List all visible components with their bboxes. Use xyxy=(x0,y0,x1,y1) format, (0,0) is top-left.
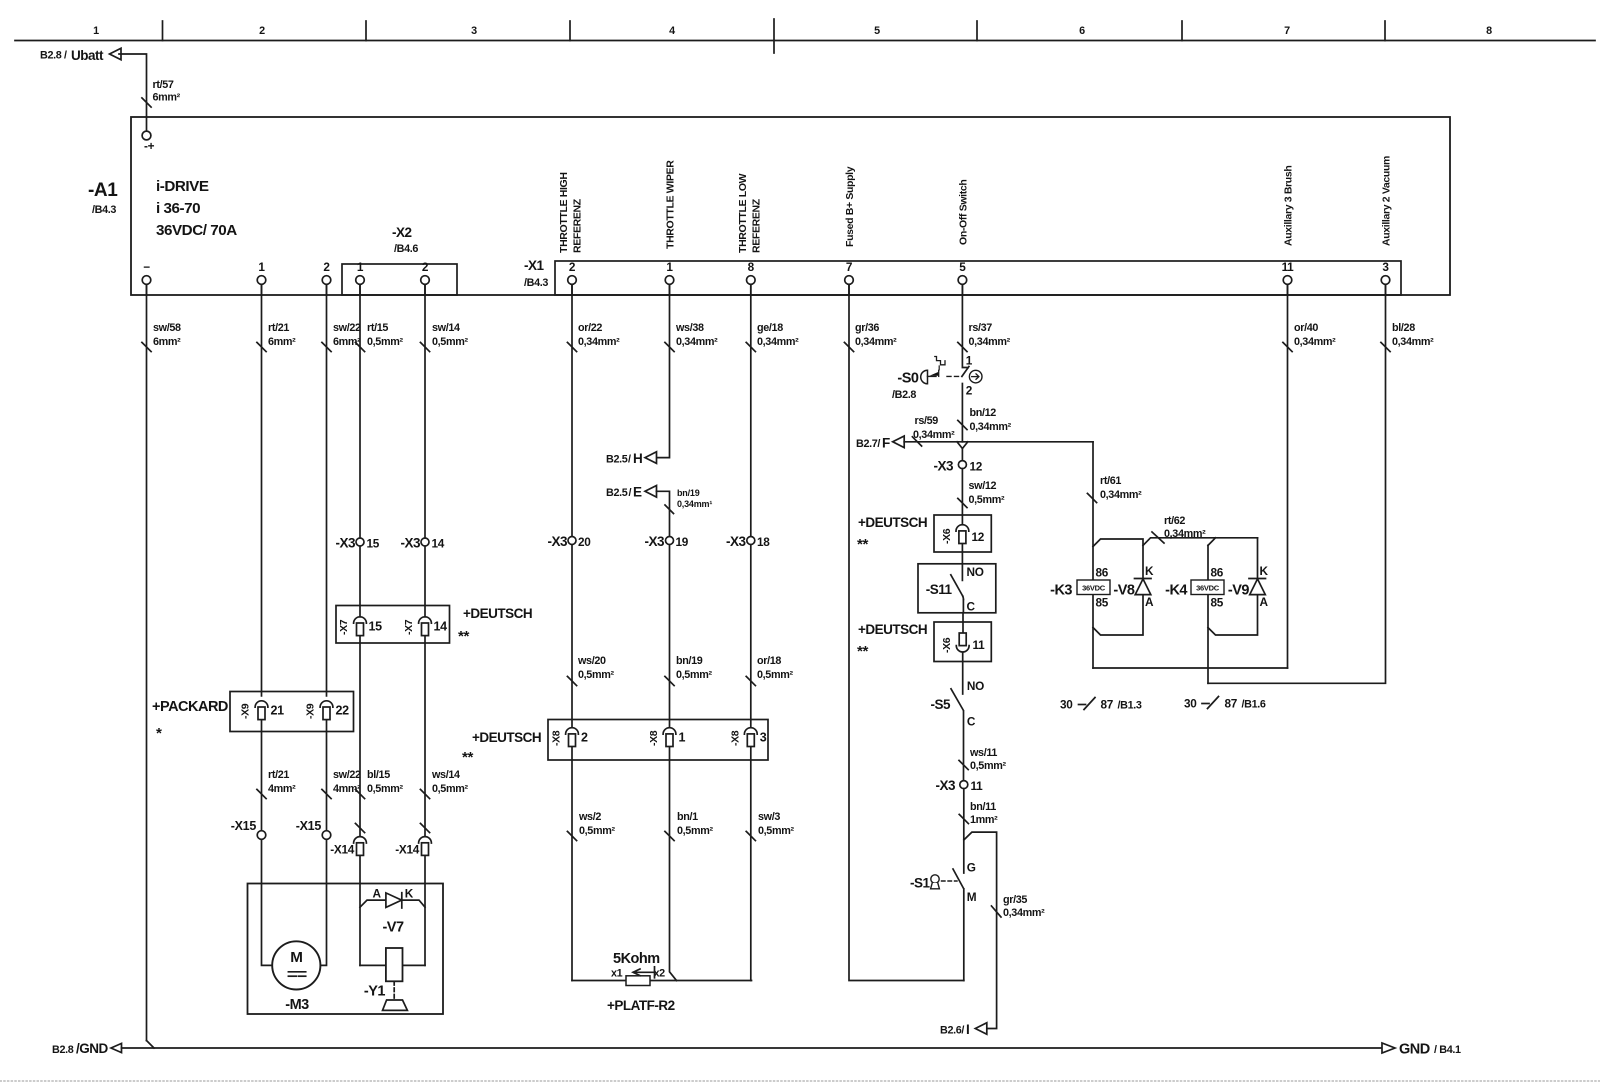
svg-text:0,5mm²: 0,5mm² xyxy=(578,669,614,681)
svg-text:G: G xyxy=(967,861,976,875)
svg-text:3: 3 xyxy=(1382,260,1389,274)
svg-text:0,34mm²: 0,34mm² xyxy=(578,336,620,348)
svg-text:-X9: -X9 xyxy=(240,703,252,719)
svg-text:0,5mm²: 0,5mm² xyxy=(758,825,794,837)
wire sw/12 (X3:12 to X6:12) xyxy=(958,469,1005,525)
diode V7 xyxy=(360,887,425,936)
X1 signal label THROTTLE WIPER xyxy=(665,160,677,249)
svg-text:-X14: -X14 xyxy=(330,843,354,857)
svg-text:6mm²: 6mm² xyxy=(333,336,361,348)
svg-text:rt/57: rt/57 xyxy=(153,79,174,91)
svg-text:-V9: -V9 xyxy=(1228,583,1250,599)
svg-text:4mm²: 4mm² xyxy=(268,783,296,795)
svg-text:11: 11 xyxy=(971,779,984,793)
svg-text:sw/14: sw/14 xyxy=(432,322,460,334)
svg-text:B2.8: B2.8 xyxy=(40,50,62,62)
svg-text:sw/58: sw/58 xyxy=(153,322,181,334)
connector X7 (+DEUTSCH **) xyxy=(336,606,532,646)
wire rt/57 from Ubatt to A1 + terminal xyxy=(119,54,181,131)
svg-text:-X3: -X3 xyxy=(400,536,421,551)
svg-text:i 36-70: i 36-70 xyxy=(156,200,200,217)
svg-text:-Y1: -Y1 xyxy=(364,984,386,1000)
wire rs/37 (X1 pin5 to S0) xyxy=(958,284,1011,367)
X8 pin 2 xyxy=(551,728,589,747)
node B2.5/H xyxy=(606,451,657,466)
svg-text:bl/28: bl/28 xyxy=(1392,322,1415,334)
controller A1 (i-DRIVE) xyxy=(88,117,1450,295)
K3 contact reference 30-87 /B1.3 xyxy=(1060,698,1142,712)
connector X2 xyxy=(342,225,457,295)
X1 pin 572 signal label xyxy=(558,172,584,253)
X1 signal label Fused B+ Supply xyxy=(844,166,856,247)
wire bn/12 (S0 to X3:12 junction) xyxy=(958,384,1012,442)
svg-text:12: 12 xyxy=(972,530,985,544)
svg-text:i-DRIVE: i-DRIVE xyxy=(156,178,209,195)
solenoid valve Y1 xyxy=(360,948,425,1010)
svg-text:30: 30 xyxy=(1184,697,1197,711)
svg-text:**: ** xyxy=(462,749,473,766)
wire sw/58 (A1 minus to GND bus) xyxy=(142,284,181,1040)
svg-text:+DEUTSCH: +DEUTSCH xyxy=(858,622,927,637)
svg-text:gr/36: gr/36 xyxy=(855,322,879,334)
svg-text:14: 14 xyxy=(434,620,448,634)
svg-text:A: A xyxy=(1145,595,1154,609)
svg-text:0,5mm²: 0,5mm² xyxy=(432,783,468,795)
svg-text:A: A xyxy=(373,887,382,901)
X1 pin 8 xyxy=(747,260,756,295)
svg-text:-X7: -X7 xyxy=(403,619,415,635)
wire gr/36 (X1 pin7 Fused B+ down to S1 loop) xyxy=(844,284,963,980)
svg-text:ge/18: ge/18 xyxy=(757,322,783,334)
svg-text:0,5mm²: 0,5mm² xyxy=(432,336,468,348)
svg-text:rt/62: rt/62 xyxy=(1164,515,1185,527)
svg-text:-V8: -V8 xyxy=(1113,583,1135,599)
svg-text:sw/22: sw/22 xyxy=(333,322,361,334)
svg-text:x1: x1 xyxy=(611,968,623,980)
svg-text:+PLATF-R2: +PLATF-R2 xyxy=(607,998,675,1013)
svg-text:2: 2 xyxy=(966,384,973,398)
svg-text:K: K xyxy=(405,887,414,901)
svg-text:0,34mm²: 0,34mm² xyxy=(1164,528,1206,540)
connector X8 (+DEUTSCH **) xyxy=(462,720,768,767)
X7 pin 14 xyxy=(403,617,447,636)
svg-text:K: K xyxy=(1145,564,1154,578)
svg-text:REFERENZ: REFERENZ xyxy=(572,198,584,253)
svg-text:85: 85 xyxy=(1096,596,1109,610)
svg-text:C: C xyxy=(967,600,976,614)
X8 pin 3 xyxy=(729,728,767,747)
wire S11 to X6:11 xyxy=(962,613,964,633)
svg-text:-X2: -X2 xyxy=(392,225,412,240)
svg-text:-X3: -X3 xyxy=(644,534,665,549)
svg-text:I: I xyxy=(966,1022,969,1037)
relay coil K4 loop xyxy=(1208,538,1258,684)
svg-text:REFERENZ: REFERENZ xyxy=(750,198,762,253)
svg-text:-S1: -S1 xyxy=(910,876,931,891)
potentiometer R2 (+PLATF-R2, 5Kohm) xyxy=(572,951,752,1013)
svg-text:+DEUTSCH: +DEUTSCH xyxy=(858,515,927,530)
connector X6 pin 12 (+DEUTSCH **) xyxy=(857,515,991,553)
X1 pin 5 xyxy=(958,260,967,295)
X1 signal label Auxillary 3 Brush xyxy=(1283,166,1295,246)
svg-text:0,5mm²: 0,5mm² xyxy=(677,825,713,837)
wire or/40 lower run (K3 rail to X1 pin11) xyxy=(1093,667,1288,669)
key switch S1 (G/M) xyxy=(910,861,977,981)
svg-text:bl/15: bl/15 xyxy=(367,769,390,781)
svg-text:-X3: -X3 xyxy=(335,536,356,551)
wire rt/21 (A1 pin1 to X9:21, X15, motor M3) xyxy=(257,284,296,965)
svg-text:NO: NO xyxy=(967,565,984,579)
svg-text:E: E xyxy=(633,485,642,500)
svg-text:rs/37: rs/37 xyxy=(969,322,993,334)
svg-text:-X6: -X6 xyxy=(941,528,953,544)
svg-text:0,34mm²: 0,34mm² xyxy=(1003,907,1045,919)
svg-text:0,34mm²: 0,34mm² xyxy=(969,336,1011,348)
svg-text:5Kohm: 5Kohm xyxy=(613,951,660,967)
svg-text:6mm²: 6mm² xyxy=(153,92,181,104)
svg-text:0,5mm²: 0,5mm² xyxy=(367,336,403,348)
svg-text:0,34mm²: 0,34mm² xyxy=(1392,336,1434,348)
svg-text:-X15: -X15 xyxy=(231,819,257,833)
svg-text:B2.5: B2.5 xyxy=(606,487,628,499)
X2 pin 2 xyxy=(421,260,430,295)
svg-text:-X8: -X8 xyxy=(729,730,741,746)
wire sw/14 / ws/14 (X2 pin2 via X3:14, X7:14, X14 to V7/Y1) xyxy=(420,284,468,965)
svg-text:/B2.8: /B2.8 xyxy=(892,389,916,401)
svg-text:-X6: -X6 xyxy=(941,637,953,653)
wire bn/19 / bn/1 (X3:19 via X8:1 to R2 wiper) xyxy=(665,544,714,980)
svg-text:-X15: -X15 xyxy=(296,819,322,833)
relay K3 coil (36VDC) xyxy=(1050,566,1110,610)
wire junction Y at X3:12 xyxy=(957,442,968,461)
svg-text:-X8: -X8 xyxy=(648,730,660,746)
svg-text:0,5mm²: 0,5mm² xyxy=(969,494,1005,506)
svg-text:1: 1 xyxy=(679,731,686,745)
svg-text:15: 15 xyxy=(369,620,383,634)
svg-text:-S5: -S5 xyxy=(930,697,951,712)
svg-text:0,5mm²: 0,5mm² xyxy=(367,783,403,795)
node X3 pin 20 xyxy=(547,534,591,549)
svg-text:14: 14 xyxy=(432,537,445,551)
X2 pin 1 xyxy=(356,260,365,295)
svg-text:/: / xyxy=(629,487,632,499)
svg-text:Auxillary 3 Brush: Auxillary 3 Brush xyxy=(1283,166,1295,246)
svg-text:-X8: -X8 xyxy=(551,730,563,746)
svg-text:-X3: -X3 xyxy=(547,534,568,549)
svg-text:-A1: -A1 xyxy=(88,180,118,201)
svg-text:5: 5 xyxy=(959,260,966,274)
svg-text:F: F xyxy=(882,436,890,451)
svg-text:18: 18 xyxy=(757,535,770,549)
connector X15 (on sw/22) xyxy=(296,819,331,839)
GND bus wire xyxy=(122,1041,1383,1049)
svg-text:7: 7 xyxy=(1284,25,1290,37)
svg-text:−: − xyxy=(143,260,150,274)
svg-text:bn/19: bn/19 xyxy=(676,655,703,667)
svg-text:gr/35: gr/35 xyxy=(1003,894,1027,906)
wire rt/61 (junction to K3 coil rail) xyxy=(1087,442,1142,668)
svg-text:1: 1 xyxy=(966,354,973,368)
svg-text:/ B4.1: / B4.1 xyxy=(1434,1044,1461,1056)
wire bl/28 (X1 pin 3 Auxillary 2 Vacuum) xyxy=(1208,284,1434,683)
svg-text:B2.5: B2.5 xyxy=(606,454,628,466)
A1 pin 1 xyxy=(257,260,266,295)
svg-text:0,34mm²: 0,34mm² xyxy=(970,421,1012,433)
node B2.5/E xyxy=(606,485,657,500)
svg-text:2: 2 xyxy=(569,260,576,274)
svg-text:/: / xyxy=(64,50,67,62)
motor assembly enclosure xyxy=(248,884,444,1015)
node B2.8/GND xyxy=(52,1041,122,1056)
connector X1 xyxy=(524,258,1401,295)
svg-text:21: 21 xyxy=(271,704,285,718)
svg-text:3: 3 xyxy=(760,731,767,745)
svg-text:1: 1 xyxy=(357,260,364,274)
wire or/22 / ws/20 / ws/2 (X1 pin2 via X3:20, X8:2 to R2) xyxy=(567,284,620,980)
svg-text:0,5mm²: 0,5mm² xyxy=(970,760,1006,772)
X1 pin 11 xyxy=(1282,260,1295,295)
svg-text:+PACKARD: +PACKARD xyxy=(152,699,228,715)
wire or/40 (X1 pin 11 Auxillary 3 Brush) xyxy=(1283,284,1336,668)
svg-text:sw/3: sw/3 xyxy=(758,811,780,823)
svg-text:-X1: -X1 xyxy=(524,258,545,273)
A1 pin 2 xyxy=(322,260,331,295)
X1 pin 7 xyxy=(845,260,854,295)
page edge dotted line xyxy=(0,1080,1600,1082)
svg-text:1mm²: 1mm² xyxy=(970,814,998,826)
svg-text:-X3: -X3 xyxy=(933,459,954,474)
svg-text:2: 2 xyxy=(422,260,429,274)
svg-text:M: M xyxy=(290,949,302,966)
node B2.6/I xyxy=(940,1022,987,1037)
svg-text:H: H xyxy=(633,451,642,466)
X9 pin 22 xyxy=(305,701,350,720)
svg-text:rt/15: rt/15 xyxy=(367,322,388,334)
svg-text:/GND: /GND xyxy=(76,1041,109,1056)
svg-text:/B4.3: /B4.3 xyxy=(524,277,548,289)
svg-text:or/18: or/18 xyxy=(757,655,781,667)
svg-text:0,5mm²: 0,5mm² xyxy=(579,825,615,837)
X1 pin 750.8 signal label xyxy=(737,173,763,253)
svg-text:**: ** xyxy=(857,536,868,553)
svg-text:-K4: -K4 xyxy=(1165,583,1187,599)
svg-text:36VDC: 36VDC xyxy=(1082,584,1106,593)
svg-text:11: 11 xyxy=(1282,260,1295,274)
svg-text:THROTTLE LOW: THROTTLE LOW xyxy=(737,173,749,253)
relay K4 coil (36VDC) xyxy=(1165,566,1224,610)
svg-text:+DEUTSCH: +DEUTSCH xyxy=(463,606,532,621)
X1 pin 3 xyxy=(1381,260,1390,295)
node X3 pin 18 xyxy=(726,534,770,549)
svg-text:4mm²: 4mm² xyxy=(333,783,361,795)
svg-text:2: 2 xyxy=(259,25,265,37)
connector X9 (+PACKARD *) xyxy=(152,692,354,743)
svg-text:ws/14: ws/14 xyxy=(431,769,460,781)
svg-text:87: 87 xyxy=(1225,697,1238,711)
svg-text:THROTTLE WIPER: THROTTLE WIPER xyxy=(665,160,677,249)
svg-text:87: 87 xyxy=(1101,698,1114,712)
svg-text:85: 85 xyxy=(1211,596,1224,610)
svg-text:-X14: -X14 xyxy=(395,843,419,857)
node Ubatt (B2.8) xyxy=(40,48,121,63)
svg-text:-X9: -X9 xyxy=(305,703,317,719)
svg-text:ws/20: ws/20 xyxy=(577,655,606,667)
switch S5 (NO/C) xyxy=(930,652,984,728)
svg-text:GND: GND xyxy=(1399,1042,1430,1058)
svg-text:8: 8 xyxy=(1486,25,1492,37)
svg-text:4: 4 xyxy=(669,25,675,37)
svg-text:1: 1 xyxy=(666,260,673,274)
svg-text:bn/19: bn/19 xyxy=(677,488,700,498)
connector X15 (on rt/21) xyxy=(231,819,266,839)
svg-text:Auxillary 2 Vacuum: Auxillary 2 Vacuum xyxy=(1381,156,1393,246)
svg-text:5: 5 xyxy=(874,25,880,37)
svg-text:6: 6 xyxy=(1079,25,1085,37)
svg-text:NO: NO xyxy=(967,679,984,693)
node X3 pin 15 xyxy=(335,536,379,551)
svg-text:rt/21: rt/21 xyxy=(268,769,289,781)
svg-text:-S11: -S11 xyxy=(926,582,953,597)
wire rt/62 (K3 to K4) xyxy=(1143,515,1258,545)
svg-text:sw/22: sw/22 xyxy=(333,769,361,781)
svg-text:0,34mm²: 0,34mm² xyxy=(913,429,955,441)
column ruler xyxy=(15,19,1595,53)
svg-text:-V7: -V7 xyxy=(382,920,404,936)
svg-text:1: 1 xyxy=(258,260,265,274)
svg-text:2: 2 xyxy=(323,260,330,274)
svg-text:+DEUTSCH: +DEUTSCH xyxy=(472,730,541,745)
svg-text:2: 2 xyxy=(581,731,588,745)
svg-text:Fused B+ Supply: Fused B+ Supply xyxy=(844,166,856,247)
svg-text:0,34mm²: 0,34mm² xyxy=(757,336,799,348)
svg-text:1: 1 xyxy=(93,25,99,37)
X1 pin 2 xyxy=(568,260,577,295)
svg-text:ws/11: ws/11 xyxy=(969,747,997,759)
svg-text:0,34mm²: 0,34mm² xyxy=(855,336,897,348)
svg-text:0,34mm¹: 0,34mm¹ xyxy=(677,499,712,509)
X1 pin 1 xyxy=(665,260,674,295)
svg-text:8: 8 xyxy=(748,260,755,274)
svg-text:15: 15 xyxy=(367,537,380,551)
svg-text:-K3: -K3 xyxy=(1050,583,1072,599)
svg-text:/B1.6: /B1.6 xyxy=(1242,699,1266,711)
diode V9 xyxy=(1228,564,1269,609)
svg-text:-X3: -X3 xyxy=(726,534,747,549)
connector X14 (on bl/15) xyxy=(330,837,366,857)
svg-text:THROTTLE HIGH: THROTTLE HIGH xyxy=(558,172,570,253)
svg-text:ws/2: ws/2 xyxy=(578,811,601,823)
svg-text:-X3: -X3 xyxy=(935,778,956,793)
motor M3 xyxy=(272,941,320,1013)
X9 pin 21 xyxy=(240,701,285,720)
svg-text:86: 86 xyxy=(1211,566,1224,580)
svg-text:bn/1: bn/1 xyxy=(677,811,698,823)
svg-text:-X7: -X7 xyxy=(338,619,350,635)
X1 signal label Auxillary 2 Vacuum xyxy=(1381,156,1393,246)
svg-text:6mm²: 6mm² xyxy=(153,336,181,348)
svg-text:bn/11: bn/11 xyxy=(970,801,996,813)
svg-text:/B4.3: /B4.3 xyxy=(92,204,116,216)
svg-text:0,5mm²: 0,5mm² xyxy=(676,669,712,681)
svg-text:bn/12: bn/12 xyxy=(970,407,997,419)
svg-text:12: 12 xyxy=(970,460,983,474)
svg-text:/B4.6: /B4.6 xyxy=(394,243,418,255)
svg-text:6mm²: 6mm² xyxy=(268,336,296,348)
svg-text:0,34mm²: 0,34mm² xyxy=(676,336,718,348)
svg-text:3: 3 xyxy=(471,25,477,37)
svg-text:7: 7 xyxy=(846,260,853,274)
svg-text:36VDC/ 70A: 36VDC/ 70A xyxy=(156,222,237,239)
svg-text:0,5mm²: 0,5mm² xyxy=(757,669,793,681)
svg-text:-+: -+ xyxy=(144,139,155,153)
A1 pin "minus" xyxy=(142,260,151,295)
svg-text:11: 11 xyxy=(973,638,986,652)
wire ws/38 (X1 pin1 to B2.5/H) xyxy=(656,284,718,457)
svg-text:-M3: -M3 xyxy=(285,997,309,1013)
svg-text:**: ** xyxy=(857,643,868,660)
svg-text:B2.8: B2.8 xyxy=(52,1044,74,1056)
key switch S0 xyxy=(892,354,982,402)
svg-text:19: 19 xyxy=(676,535,689,549)
switch S11 (NO/C) xyxy=(918,564,996,614)
X8 pin 1 xyxy=(648,728,686,747)
svg-text:M: M xyxy=(967,890,977,904)
svg-text:/B1.3: /B1.3 xyxy=(1118,700,1142,712)
svg-text:K: K xyxy=(1260,564,1269,578)
svg-text:rt/21: rt/21 xyxy=(268,322,289,334)
svg-text:0,34mm²: 0,34mm² xyxy=(1100,489,1142,501)
svg-text:**: ** xyxy=(458,628,469,645)
wire rt/15 / bl/15 (X2 pin1 via X3:15, X7:15, X14 to V7/Y1) xyxy=(355,284,403,965)
svg-text:or/22: or/22 xyxy=(578,322,602,334)
node GND /B4.1 xyxy=(1382,1042,1461,1058)
wire X6:12 to S11 xyxy=(961,545,963,581)
svg-text:86: 86 xyxy=(1096,566,1109,580)
svg-text:-S0: -S0 xyxy=(897,371,919,387)
svg-text:rs/59: rs/59 xyxy=(915,415,939,427)
svg-text:On-Off Switch: On-Off Switch xyxy=(957,180,969,245)
svg-text:*: * xyxy=(156,725,162,742)
svg-text:/: / xyxy=(628,454,631,466)
X1 signal label On-Off Switch xyxy=(957,180,969,245)
node X3 pin 11 xyxy=(935,778,983,793)
svg-text:B2.6/: B2.6/ xyxy=(940,1025,964,1037)
wire ge/18 / or/18 / sw/3 (X1 pin8 via X3:18, X8:3 to R2) xyxy=(746,284,799,980)
node X3 pin 12 xyxy=(933,459,982,474)
diode V8 xyxy=(1113,564,1154,609)
svg-text:sw/12: sw/12 xyxy=(969,480,997,492)
svg-text:B2.7/: B2.7/ xyxy=(856,438,880,450)
node X3 pin 19 xyxy=(644,534,688,549)
svg-text:36VDC: 36VDC xyxy=(1196,584,1220,593)
svg-text:rt/61: rt/61 xyxy=(1100,475,1121,487)
wire bn/11 (X3:11 to S1) xyxy=(959,789,998,873)
K4 contact reference 30-87 /B1.6 xyxy=(1184,697,1266,711)
svg-text:Ubatt: Ubatt xyxy=(71,48,104,63)
node X3 pin 14 xyxy=(400,536,444,551)
svg-text:ws/38: ws/38 xyxy=(675,322,704,334)
svg-text:30: 30 xyxy=(1060,698,1073,712)
svg-text:C: C xyxy=(967,715,976,729)
wire ws/11 (S5 to X3:11) xyxy=(959,711,1006,781)
connector X14 (on ws/14) xyxy=(395,837,431,857)
svg-text:A: A xyxy=(1260,595,1269,609)
wire sw/22 (A1 pin2 to X9:22, X15, motor M3) xyxy=(320,284,361,965)
svg-text:0,34mm²: 0,34mm² xyxy=(1294,336,1336,348)
node B2.7/F + wire rs/59 xyxy=(856,415,1093,451)
svg-text:20: 20 xyxy=(578,535,591,549)
wire bn/19 small (B2.5/E to X3:19) xyxy=(656,488,712,537)
